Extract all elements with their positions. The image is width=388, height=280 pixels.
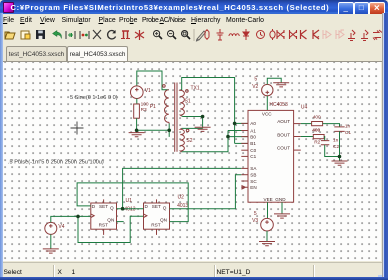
svg-text:B0: B0 — [250, 134, 256, 139]
svg-text:QN: QN — [160, 217, 167, 222]
svg-text:C1: C1 — [345, 130, 351, 136]
svg-text:5: 5 — [254, 76, 257, 82]
svg-text:COUT: COUT — [277, 146, 290, 151]
voltage source V3 — [261, 218, 274, 231]
phase dot S2 — [186, 129, 189, 132]
wire A0 — [235, 122, 248, 124]
svg-text:100: 100 — [141, 101, 149, 107]
svg-text:Q: Q — [163, 205, 167, 210]
svg-text:SC: SC — [250, 179, 257, 184]
svg-text:5 Sine(0 1 1e6 0 0): 5 Sine(0 1 1e6 0 0) — [70, 95, 118, 101]
junction node U1 Q — [121, 207, 125, 211]
svg-text:.5 Pulse(-1m 5 0 250n 250n 25u: .5 Pulse(-1m 5 0 250n 250n 25u 100u) — [8, 160, 104, 166]
ground GND pin — [274, 214, 290, 218]
phase dot S1 — [186, 90, 189, 93]
junction node C1 C2 ground — [338, 155, 342, 159]
wire V1 bottom to R3 — [136, 99, 138, 105]
wire A1 — [228, 130, 248, 132]
wire U1 QN stub — [117, 221, 124, 223]
wire S2 bottom to A1 B0 column — [182, 131, 228, 152]
wire U1 Q to U2 D and SA — [117, 168, 242, 208]
svg-text:A0: A0 — [250, 121, 256, 126]
svg-text:5: 5 — [254, 211, 257, 217]
svg-text:400: 400 — [312, 128, 320, 134]
svg-text:D: D — [92, 204, 96, 209]
capacitor C1 — [334, 127, 344, 131]
ground C1 C2 — [332, 161, 348, 165]
resistor R2 — [313, 135, 324, 139]
wire U2 QN feedback to U1 D — [77, 183, 188, 222]
ground V2 — [273, 83, 289, 87]
svg-text:S2: S2 — [186, 138, 192, 144]
wire V4 bottom to ground — [50, 234, 52, 249]
svg-text:C0: C0 — [250, 148, 256, 153]
ground V4 — [43, 249, 59, 253]
junction node B0 — [226, 135, 230, 139]
capacitor C2 — [321, 141, 329, 145]
svg-text:1n: 1n — [345, 123, 351, 129]
svg-text:C2: C2 — [333, 144, 339, 150]
wire AOUT to R1 — [301, 123, 312, 125]
pin COUT — [294, 149, 301, 151]
wire C1 C2 to ground — [325, 131, 340, 161]
pin B0 — [241, 136, 248, 138]
pin AOUT — [294, 123, 301, 125]
pin SC — [241, 180, 248, 182]
svg-text:S1: S1 — [185, 98, 191, 104]
flip-flop U1 texts — [92, 204, 115, 228]
pin C1 — [241, 155, 248, 157]
resistor R1 — [312, 122, 323, 126]
svg-text:B1: B1 — [250, 141, 256, 146]
wire B1 — [235, 142, 248, 144]
wire R1 to C1 — [323, 124, 340, 127]
svg-text:SET: SET — [152, 204, 161, 209]
wire V2 top to ground — [267, 78, 281, 84]
pin GND wire — [281, 202, 283, 214]
wire V1 top to transformer primary — [137, 71, 169, 90]
pin BOUT — [294, 136, 301, 138]
wire V3 bottom to ground — [266, 231, 268, 242]
pin C0 — [241, 149, 248, 151]
svg-text:TX1: TX1 — [191, 86, 200, 92]
svg-text:U4: U4 — [301, 105, 308, 111]
wire S1 bottom to center tap — [182, 116, 203, 129]
transformer TX1 core — [175, 83, 177, 152]
svg-text:QN: QN — [107, 217, 114, 222]
ground V3 — [259, 242, 275, 246]
svg-text:400: 400 — [313, 115, 321, 121]
wire U2 Q to SB — [170, 175, 242, 209]
svg-text:SET: SET — [99, 204, 108, 209]
svg-text:4013: 4013 — [177, 203, 188, 209]
svg-text:SB: SB — [250, 173, 256, 178]
menu bar — [2, 14, 386, 27]
pin SA — [241, 167, 248, 169]
junction node center tap — [201, 115, 205, 119]
junction node primary bottom — [167, 129, 171, 133]
svg-text:VEE: VEE — [264, 197, 273, 202]
svg-text:VCC: VCC — [262, 111, 272, 116]
svg-text:GND: GND — [275, 197, 286, 202]
flip-flop U1 body — [91, 199, 117, 235]
svg-text:Q: Q — [110, 205, 114, 210]
pin texts right — [277, 119, 290, 150]
svg-text:RST: RST — [99, 223, 109, 228]
svg-text:V2: V2 — [252, 84, 258, 90]
svg-text:R3: R3 — [141, 107, 147, 113]
wire B0 — [228, 136, 248, 138]
window borders — [0, 13, 3, 280]
svg-text:1n: 1n — [333, 137, 339, 143]
ground below R3 — [129, 130, 145, 137]
pin texts left — [250, 121, 257, 190]
pin VEE — [267, 202, 269, 218]
pin EN — [241, 186, 248, 189]
resistor R3 — [134, 104, 140, 118]
svg-text:BOUT: BOUT — [277, 133, 290, 138]
svg-text:EN: EN — [250, 185, 256, 190]
flip-flop U2 texts — [145, 204, 168, 228]
junction node A0 — [233, 122, 237, 126]
voltage source V4 — [45, 222, 57, 234]
schematic canvas — [3, 62, 382, 261]
svg-text:4013: 4013 — [124, 207, 135, 213]
svg-text:HC4053: HC4053 — [269, 102, 288, 108]
wire R3 bottom to ground rail — [137, 118, 170, 137]
transformer primary winding P1 — [164, 90, 169, 124]
svg-text:P1: P1 — [150, 104, 156, 110]
transformer secondary winding S2 — [180, 128, 184, 152]
svg-text:R2: R2 — [314, 139, 320, 145]
title bar — [0, 0, 388, 14]
svg-text:RST: RST — [151, 223, 161, 228]
pin SB — [241, 174, 248, 176]
svg-text:V1: V1 — [145, 88, 151, 94]
svg-text:AOUT: AOUT — [277, 119, 290, 124]
flip-flop U2 body — [144, 199, 170, 235]
wire S1 top to A0 B1 column — [182, 78, 235, 144]
svg-text:V3: V3 — [252, 218, 258, 224]
junction node clock — [76, 215, 80, 219]
pin B1 — [241, 142, 248, 144]
op-amp U4 HC4053 body — [248, 110, 294, 202]
voltage source V1 — [131, 86, 144, 99]
ground center tap — [195, 127, 211, 131]
cursor crosshair — [71, 122, 84, 135]
wire V2 bottom to VCC pin — [266, 96, 268, 111]
svg-text:A1: A1 — [250, 128, 256, 133]
junction node R3-ground — [135, 129, 139, 133]
tabs — [2, 45, 386, 61]
toolbar (icons drawn in SVG) — [2, 27, 386, 45]
wire BOUT to R2 — [301, 136, 314, 138]
svg-text:U1: U1 — [126, 198, 133, 204]
svg-text:V4: V4 — [58, 224, 64, 230]
transformer secondary winding S1 — [180, 90, 184, 117]
status bar — [3, 262, 382, 279]
svg-text:SA: SA — [250, 166, 257, 171]
svg-text:U2: U2 — [178, 195, 185, 201]
wire R2 to C2 — [323, 137, 326, 141]
svg-text:C1: C1 — [250, 154, 256, 159]
wire V4 to clocks — [51, 216, 144, 242]
voltage source V2 — [262, 84, 273, 95]
pin A0 — [241, 122, 248, 124]
pin A1 — [241, 130, 248, 132]
phase dot P1 — [163, 85, 166, 88]
